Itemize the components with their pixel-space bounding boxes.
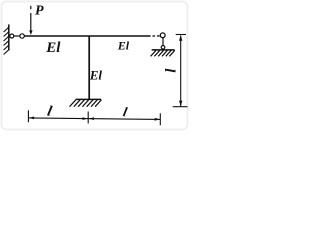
svg-text:El: El	[89, 67, 103, 82]
dimension arrow down (right dim)	[179, 101, 182, 107]
svg-text:P: P	[35, 4, 44, 19]
dimension arrow right (span 2)	[155, 118, 160, 121]
beam member (horizontal, EI)	[24, 35, 150, 37]
dimension arrow right (span 1)	[83, 117, 88, 120]
hinge circle B (beam right end)	[160, 33, 165, 38]
dimension line (bottom, horizontal)	[28, 110, 160, 125]
fixed support base (column)	[76, 98, 102, 100]
column member (vertical, EI)	[88, 36, 90, 99]
dimension arrow left (span 2)	[89, 117, 94, 120]
wall hatching	[4, 27, 9, 54]
load P arrow	[29, 6, 32, 35]
svg-text:El: El	[45, 40, 61, 56]
roller link (right support)	[162, 38, 164, 46]
roller circle (right support)	[161, 46, 165, 50]
hinge circle A1 (link left hinge)	[10, 34, 14, 38]
fixed support hatching	[70, 100, 102, 107]
beam end dashes (scan breaks)	[152, 35, 155, 37]
dimension arrow left (span 1)	[29, 117, 34, 120]
svg-text:El: El	[117, 39, 130, 53]
dimension line (right, vertical)	[173, 35, 188, 107]
hinge circle A2 (link right hinge)	[20, 34, 24, 38]
dimension arrow up (right dim)	[179, 35, 182, 41]
wall (left support wall)	[8, 24, 10, 50]
roller support hatching	[151, 50, 175, 56]
roller support base	[152, 49, 175, 51]
link bar (horizontal support link)	[14, 35, 20, 37]
